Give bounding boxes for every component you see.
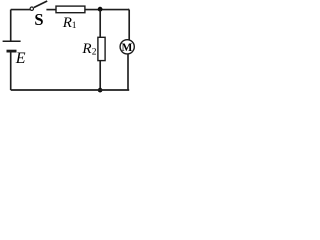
wire: switch fixed contact to resistor R1	[46, 9, 55, 11]
node: top junction dot	[98, 7, 103, 12]
svg-text:2: 2	[92, 47, 97, 57]
wire: junction down to R2	[99, 10, 101, 38]
svg-text:S: S	[34, 10, 43, 29]
wire: top-left horizontal from corner to switch	[11, 9, 31, 11]
motor M circle	[120, 40, 134, 54]
battery E short thick plate	[7, 50, 17, 53]
battery E long plate	[3, 40, 21, 42]
wire: battery down to bottom-left corner	[10, 51, 12, 90]
wire: motor to bottom-right corner	[127, 54, 129, 90]
svg-text:1: 1	[72, 21, 77, 31]
node: bottom junction dot	[98, 88, 103, 93]
switch S blade	[34, 1, 47, 8]
svg-text:E: E	[15, 50, 26, 67]
switch S pivot circle	[30, 7, 33, 10]
wire: right vertical top (corner to motor)	[128, 10, 129, 40]
resistor R1 box	[56, 6, 85, 13]
svg-text:M: M	[122, 42, 133, 54]
svg-text:R: R	[81, 41, 91, 57]
wire: left vertical from top corner down to battery	[10, 10, 12, 42]
wire: R1 to top-right corner	[85, 9, 129, 11]
resistor R2 box	[98, 37, 105, 60]
wire: R2 down to bottom junction	[99, 61, 101, 90]
wire: bottom horizontal	[11, 89, 130, 91]
svg-text:R: R	[62, 15, 72, 31]
